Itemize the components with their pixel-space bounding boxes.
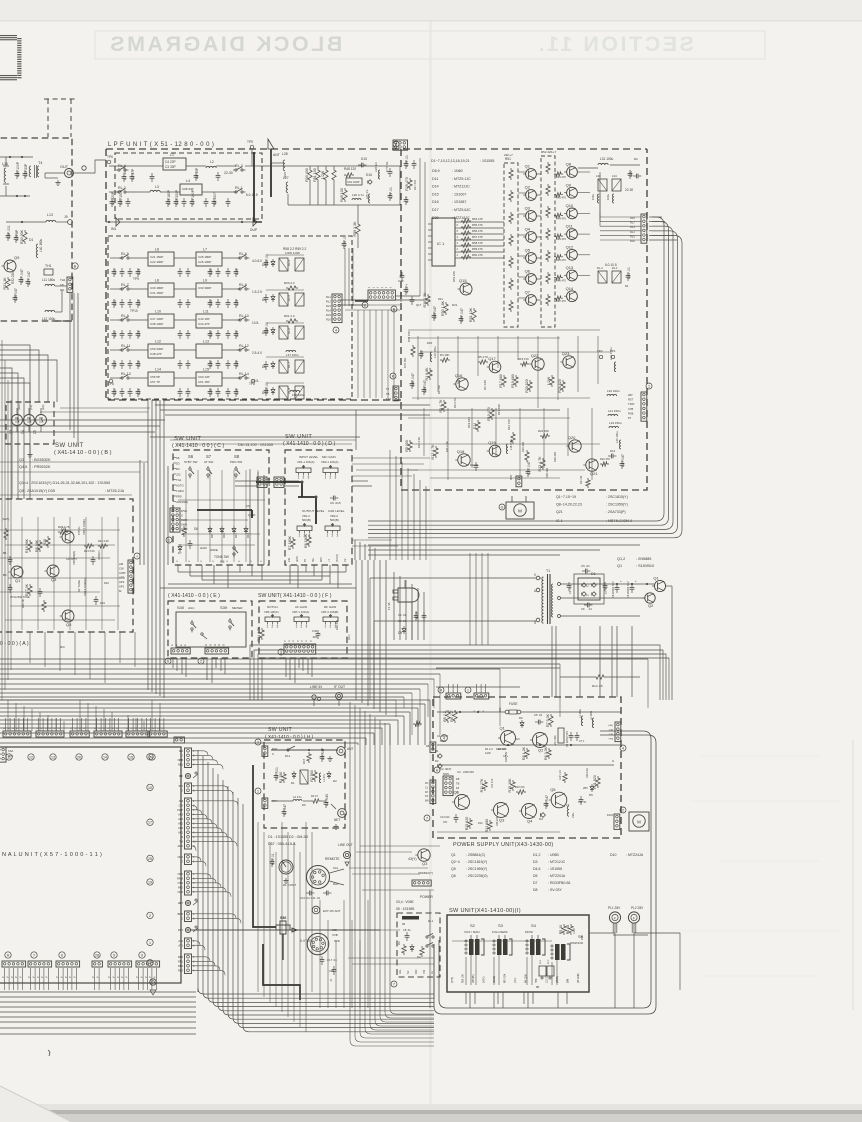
svg-text:L6: L6	[155, 248, 159, 252]
svg-text:Q18: Q18	[457, 449, 465, 454]
svg-text:CWP: CWP	[119, 571, 126, 575]
svg-text:C29: C29	[235, 361, 239, 367]
svg-text:R14 47K: R14 47K	[491, 778, 494, 788]
svg-text:R50 1.8K: R50 1.8K	[441, 300, 445, 316]
svg-text:1/2W: 1/2W	[485, 752, 491, 755]
svg-text:TM: TM	[179, 840, 183, 844]
svg-text:R76 15K: R76 15K	[403, 358, 407, 368]
svg-text:AP1: AP1	[178, 831, 183, 835]
svg-text:M: M	[637, 820, 641, 825]
svg-text:: 2SC2235(O): : 2SC2235(O)	[466, 874, 488, 878]
svg-text:R7 180K: R7 180K	[288, 535, 292, 550]
svg-text:Q22: Q22	[531, 353, 539, 358]
svg-text:RAT: RAT	[178, 928, 183, 932]
svg-text:RL6: RL6	[326, 318, 331, 322]
svg-text:C26 047: C26 047	[14, 288, 18, 301]
svg-text:Q5: Q5	[550, 787, 556, 792]
svg-text:Q3: Q3	[525, 206, 531, 211]
svg-text:D33: D33	[100, 601, 105, 605]
svg-text:L18 150u: L18 150u	[509, 439, 513, 450]
svg-text:C8 150?: C8 150?	[213, 192, 217, 205]
svg-text:7: 7	[393, 983, 395, 987]
svg-text:RL-5: RL-5	[121, 252, 129, 256]
svg-text:C47 047: C47 047	[621, 454, 625, 467]
svg-text:2200 50V: 2200 50V	[463, 770, 474, 774]
svg-text:C7?: C7?	[405, 197, 409, 203]
svg-text:PAL: PAL	[312, 557, 315, 562]
svg-text:M: M	[223, 644, 226, 646]
svg-text:D15: D15	[361, 157, 367, 161]
svg-text:L30 100u: L30 100u	[615, 431, 619, 443]
svg-text:THRU: THRU	[176, 489, 184, 493]
svg-text:16V: 16V	[443, 821, 448, 824]
svg-text:1: 1	[298, 476, 300, 480]
svg-text:NBB: NBB	[178, 758, 184, 762]
svg-text:L38: L38	[596, 174, 601, 178]
svg-text:L30 4.7u: L30 4.7u	[352, 193, 364, 197]
svg-text:D11 D18: D11 D18	[497, 404, 501, 415]
svg-text:(GN): (GN)	[608, 725, 613, 727]
svg-text:C33 330P: C33 330P	[175, 189, 179, 205]
svg-text:AT SW: AT SW	[204, 460, 213, 464]
svg-text:3: 3	[277, 625, 279, 629]
svg-text:1: 1	[467, 689, 469, 693]
svg-text:G: G	[181, 917, 183, 921]
svg-text:Q8~14,20,22,23: Q8~14,20,22,23	[556, 503, 582, 507]
svg-text:: MTZ20JA: : MTZ20JA	[548, 874, 566, 878]
svg-text:D10: D10	[478, 822, 483, 825]
svg-text:2: 2	[622, 809, 624, 813]
svg-text:C6: C6	[246, 504, 250, 508]
svg-text:C6: C6	[581, 607, 585, 611]
svg-text:S: S	[272, 752, 274, 756]
svg-text:Q2: Q2	[525, 185, 531, 190]
svg-text:DUP: DUP	[250, 228, 258, 232]
svg-text:RL-5: RL-5	[287, 294, 291, 301]
svg-text:C44 47P: C44 47P	[198, 322, 210, 326]
svg-text:Q8: Q8	[566, 162, 572, 167]
svg-text:(VTB): (VTB)	[452, 977, 454, 983]
svg-text:C72 +: C72 +	[405, 284, 409, 293]
svg-text:RL-14: RL-14	[239, 372, 249, 376]
svg-text:RL-9: RL-9	[121, 314, 129, 318]
svg-text:Q6: Q6	[525, 269, 531, 274]
svg-text:NTN: NTN	[178, 881, 183, 885]
svg-text:RL-4: RL-4	[287, 259, 291, 266]
svg-text:R2 560: R2 560	[310, 770, 314, 782]
svg-text:R47 470: R47 470	[556, 299, 566, 303]
svg-text:L32 100u: L32 100u	[607, 389, 620, 393]
svg-text:Q7: Q7	[525, 290, 531, 295]
svg-text:L P F U N I T ( X 51 - 12 8 0: L P F U N I T ( X 51 - 12 8 0 - 0 0 )	[108, 142, 214, 148]
svg-text:RL3: RL3	[630, 225, 635, 229]
svg-text:: U05B: : U05B	[548, 853, 559, 857]
svg-text:NO0: NO0	[178, 890, 184, 894]
svg-text:G: G	[612, 759, 614, 763]
svg-text:6: 6	[167, 660, 169, 664]
svg-text:Q11: Q11	[566, 224, 574, 229]
svg-text:: 2SA733(P): : 2SA733(P)	[606, 510, 626, 514]
svg-text:G: G	[181, 860, 183, 864]
svg-text:M: M	[181, 835, 183, 839]
svg-text:C13 100: C13 100	[440, 816, 450, 819]
svg-text:L2 47u: L2 47u	[293, 795, 302, 799]
svg-text:R28 22K: R28 22K	[545, 468, 549, 478]
svg-text:AGC: AGC	[188, 606, 195, 610]
svg-text:C23: C23	[137, 300, 141, 306]
svg-text:R27 82: R27 82	[579, 475, 583, 484]
svg-text:( X41-1410 - 0 0 ) ( E ): ( X41-1410 - 0 0 ) ( E )	[168, 593, 220, 599]
svg-text:43(Y): 43(Y)	[408, 857, 417, 861]
svg-text:R3 4.7K: R3 4.7K	[439, 399, 443, 413]
svg-text:C40: C40	[312, 629, 318, 633]
svg-text:VRT-2 10K(B): VRT-2 10K(B)	[321, 610, 338, 614]
svg-text:L1 47u: L1 47u	[322, 774, 326, 782]
svg-text:R57 47K: R57 47K	[472, 235, 483, 239]
svg-text:1: 1	[327, 534, 329, 538]
svg-text:RL-11: RL-11	[121, 344, 131, 348]
svg-text:+: +	[635, 579, 637, 583]
svg-text:Q2: Q2	[648, 603, 654, 608]
svg-text:RL1: RL1	[428, 919, 434, 923]
svg-text:RL-7: RL-7	[121, 283, 129, 287]
svg-text:: S15VB10: : S15VB10	[636, 564, 654, 568]
svg-text:D9 D8: D9 D8	[470, 463, 478, 467]
svg-text:RL1: RL1	[630, 230, 635, 234]
svg-text:: 1S1007: : 1S1007	[452, 192, 466, 196]
svg-text:10.5-: 10.5-	[252, 321, 259, 325]
svg-text:(28(B)): (28(B))	[557, 976, 559, 983]
svg-text:L12 150u: L12 150u	[42, 317, 56, 321]
svg-text:VR6 10K(F): VR6 10K(F)	[264, 610, 279, 614]
svg-text:C26: C26	[209, 269, 213, 275]
svg-text:F1 4A: F1 4A	[387, 602, 391, 610]
svg-text:MONI: MONI	[525, 930, 533, 934]
svg-text:C26: C26	[209, 389, 213, 395]
svg-text:NB1: NB1	[178, 763, 184, 767]
svg-text:TW8: TW8	[608, 739, 613, 741]
svg-text:R30 30K: R30 30K	[20, 229, 24, 244]
svg-text:S39: S39	[220, 605, 228, 610]
svg-text:AP3: AP3	[119, 576, 125, 580]
svg-text:AP1: AP1	[119, 585, 125, 589]
svg-text:D17: D17	[432, 208, 439, 212]
svg-text:C4 .043: C4 .043	[325, 794, 329, 806]
svg-text:SECTION 11.: SECTION 11.	[536, 32, 694, 56]
svg-text:L14: L14	[155, 368, 161, 372]
svg-text:C1 100P: C1 100P	[123, 166, 127, 180]
svg-text:R26 22K: R26 22K	[553, 452, 557, 462]
svg-text:4.0-6.0: 4.0-6.0	[252, 259, 262, 263]
svg-text:PRS: PRS	[176, 495, 182, 499]
svg-text:R41 470: R41 470	[556, 175, 566, 179]
svg-text:C23: C23	[137, 389, 141, 395]
svg-text:R14 .05: R14 .05	[592, 684, 603, 688]
svg-text:AF GAIN: AF GAIN	[295, 605, 307, 609]
svg-text:Q21: Q21	[556, 510, 563, 514]
svg-text:AUTO: AUTO	[176, 484, 185, 488]
svg-text:03,4 : V06E: 03,4 : V06E	[396, 900, 414, 904]
svg-text:Q10: Q10	[566, 203, 574, 208]
svg-text:AM: AM	[119, 562, 124, 566]
svg-text:ANT: ANT	[273, 153, 280, 157]
svg-text:R6 2.2: R6 2.2	[450, 711, 454, 722]
svg-text:C5 .01: C5 .01	[581, 564, 590, 568]
svg-text:CAR LEVEL: CAR LEVEL	[328, 509, 345, 513]
svg-text:1/2W: 1/2W	[573, 928, 576, 934]
svg-text:(LEX): (LEX)	[17, 403, 21, 410]
svg-text:3: 3	[337, 534, 339, 538]
svg-text:1.5-2.5: 1.5-2.5	[252, 290, 262, 294]
svg-text:Q1: Q1	[15, 578, 21, 583]
svg-text:VR1 500: VR1 500	[554, 735, 557, 745]
svg-text:MR: MR	[179, 749, 183, 753]
svg-text:RL1: RL1	[326, 295, 331, 299]
svg-text:R54 47K: R54 47K	[472, 217, 483, 221]
svg-text:RAL: RAL	[399, 969, 402, 974]
svg-text:C28 .001: C28 .001	[7, 225, 11, 239]
svg-text:: MTZ24JA: : MTZ24JA	[626, 853, 644, 857]
svg-text:7: 7	[426, 817, 428, 821]
svg-text:RL-1: RL-1	[235, 186, 243, 190]
svg-text:R20 3.3K: R20 3.3K	[586, 768, 589, 778]
svg-text:Q1: Q1	[451, 853, 456, 857]
svg-text:TB: TB	[456, 782, 460, 786]
svg-text:: 2N5885: : 2N5885	[636, 557, 651, 561]
svg-text:D7: D7	[533, 881, 538, 885]
svg-text:POWER: POWER	[420, 895, 433, 899]
svg-text:R15 10K: R15 10K	[508, 778, 512, 793]
svg-text:RL5: RL5	[630, 216, 635, 220]
svg-text:R6 3.3K: R6 3.3K	[544, 746, 548, 760]
svg-text:C84 047: C84 047	[423, 380, 427, 393]
svg-text:C56 5P: C56 5P	[150, 375, 160, 379]
svg-text:Q3: Q3	[499, 818, 505, 823]
svg-text:C37 .047: C37 .047	[20, 269, 24, 283]
svg-text:C20: C20	[113, 331, 117, 337]
svg-text:C5 .01: C5 .01	[534, 713, 543, 717]
svg-text:R45 470: R45 470	[556, 258, 566, 262]
svg-text:L2: L2	[210, 160, 214, 164]
svg-text:19: 19	[148, 881, 152, 885]
svg-text:VOX / MAN: VOX / MAN	[464, 930, 480, 934]
svg-text:: 2SB861(C): : 2SB861(C)	[466, 853, 485, 857]
svg-text:R24 22K: R24 22K	[538, 429, 549, 433]
svg-text:M: M	[218, 644, 221, 646]
svg-text:R9 4.7K: R9 4.7K	[453, 398, 457, 408]
svg-text:RL-3: RL-3	[235, 164, 243, 168]
svg-text:D1,2: D1,2	[533, 853, 540, 857]
svg-text:R8 180K: R8 180K	[304, 533, 308, 548]
svg-text:C6 .047: C6 .047	[545, 795, 549, 807]
svg-text:RB0: RB0	[178, 955, 184, 959]
svg-text:2: 2	[200, 660, 202, 664]
svg-text:C82 .01: C82 .01	[265, 382, 269, 394]
svg-text:MIU: MIU	[60, 645, 65, 649]
svg-text:D4,6: D4,6	[533, 867, 540, 871]
svg-text:L38 1m: L38 1m	[374, 161, 378, 172]
svg-text:C82 .01: C82 .01	[265, 254, 269, 266]
svg-text:R49 100: R49 100	[340, 188, 344, 202]
svg-text:R51 10K: R51 10K	[469, 307, 473, 322]
svg-text:C29: C29	[235, 300, 239, 306]
svg-text:C8 15P: C8 15P	[195, 167, 199, 179]
svg-text:R27 47K: R27 47K	[413, 180, 417, 190]
svg-text:C20: C20	[113, 361, 117, 367]
svg-text:RB2: RB2	[178, 964, 184, 968]
svg-text:Q20: Q20	[568, 435, 576, 440]
svg-text:L1: L1	[170, 153, 174, 157]
svg-text:28V: 28V	[583, 786, 588, 790]
svg-text:APO: APO	[178, 844, 183, 848]
svg-text:C10 .01 C11 .01: C10 .01 C11 .01	[300, 896, 321, 900]
svg-text:(TXGT): (TXGT)	[336, 554, 339, 562]
svg-text:RL7: RL7	[630, 221, 635, 225]
svg-text:150u: 150u	[572, 812, 575, 818]
svg-text:RNM: RNM	[177, 877, 183, 881]
svg-text:(B SLOPE TUNE: (B SLOPE TUNE	[10, 595, 30, 599]
svg-text:Q100: Q100	[248, 513, 256, 517]
svg-text:C38 100P: C38 100P	[150, 322, 163, 326]
svg-text:NC: NC	[407, 970, 410, 974]
svg-text:: 2SC1815(Y): : 2SC1815(Y)	[606, 495, 628, 499]
svg-text:Q: Q	[330, 978, 332, 982]
svg-text:TBK: TBK	[536, 978, 538, 983]
svg-text:M: M	[205, 644, 208, 646]
svg-text:AT1: AT1	[178, 944, 183, 948]
svg-text:C76 .01: C76 .01	[343, 235, 347, 247]
svg-text:C2 47P: C2 47P	[131, 168, 135, 180]
svg-text:VR1-1 10K(A): VR1-1 10K(A)	[297, 460, 314, 464]
svg-text:C60 12P: C60 12P	[198, 375, 210, 379]
svg-text:L34: L34	[612, 174, 617, 178]
svg-text:FS: FS	[425, 795, 428, 798]
svg-text:2: 2	[330, 476, 332, 480]
svg-text:SSA: SSA	[8, 749, 13, 753]
svg-text:RC: RC	[425, 782, 429, 785]
svg-text:C20: C20	[113, 269, 117, 275]
svg-text:M: M	[214, 644, 217, 646]
svg-text:G: G	[501, 506, 504, 510]
svg-text:: 1S1587: : 1S1587	[452, 200, 466, 204]
svg-text:WVI: WVI	[320, 557, 323, 562]
svg-text:D19 D10: D19 D10	[467, 417, 471, 428]
svg-text:C4 22P: C4 22P	[165, 160, 176, 164]
svg-text:Q9: Q9	[566, 182, 572, 187]
svg-text:( X41-1410 - 0 0 ) ( H ): ( X41-1410 - 0 0 ) ( H )	[265, 734, 314, 740]
svg-text:Q1: Q1	[500, 726, 506, 731]
svg-text:C9 220P: C9 220P	[111, 191, 115, 205]
svg-text:: MTZ5.6JC: : MTZ5.6JC	[452, 208, 471, 212]
svg-text:R24 680: R24 680	[485, 819, 489, 833]
svg-text:D16: D16	[432, 200, 439, 204]
svg-text:Q17: Q17	[488, 356, 496, 361]
svg-text:14: 14	[103, 756, 107, 760]
svg-text:C3: C3	[457, 770, 461, 774]
svg-text:R25 620: R25 620	[465, 817, 469, 831]
svg-text:C14 180P: C14 180P	[167, 189, 171, 205]
svg-text:R60 47K: R60 47K	[472, 253, 483, 257]
svg-text:Q23: Q23	[562, 351, 570, 356]
svg-text:C50 330P: C50 330P	[150, 347, 163, 351]
svg-text:MT1: MT1	[8, 754, 14, 758]
svg-text:C27 .047: C27 .047	[27, 271, 31, 285]
svg-text:IC 1: IC 1	[437, 241, 445, 246]
svg-text:PRO SW: PRO SW	[230, 460, 242, 464]
svg-text:R25 22K: R25 22K	[521, 442, 525, 452]
svg-text:NO2: NO2	[178, 855, 184, 859]
svg-text:D12: D12	[246, 532, 250, 538]
svg-text:LINE OUT: LINE OUT	[338, 843, 353, 847]
svg-text:D2: D2	[333, 779, 337, 783]
svg-text:SW UNIT( X41-1410 - 0 0 ) ( F: SW UNIT( X41-1410 - 0 0 ) ( F )	[258, 593, 332, 599]
svg-text:C26: C26	[209, 361, 213, 367]
svg-text:R44 470: R44 470	[556, 237, 566, 241]
svg-text:D3: D3	[176, 467, 180, 471]
svg-text:S4: S4	[531, 923, 537, 928]
svg-text:R17 680: R17 680	[499, 374, 503, 388]
svg-text:R17 3K: R17 3K	[25, 583, 29, 596]
svg-text:RL3: RL3	[326, 304, 331, 308]
svg-text:L37 100u: L37 100u	[286, 353, 299, 357]
svg-text:H: H	[436, 769, 439, 773]
svg-text:FAN: FAN	[607, 813, 613, 817]
svg-text:L10: L10	[155, 310, 161, 314]
svg-text:TG1: TG1	[176, 478, 182, 482]
svg-text:RF2: RF2	[178, 886, 183, 890]
svg-text:L11: L11	[203, 310, 209, 314]
svg-text:L3: L3	[155, 185, 159, 189]
svg-text:D14: D14	[610, 449, 616, 453]
svg-text:R10 1K: R10 1K	[21, 599, 25, 608]
svg-text:L11 180u: L11 180u	[42, 278, 55, 282]
svg-text:D8: D8	[533, 888, 538, 892]
svg-text:: 2SC1815(Y): : 2SC1815(Y)	[466, 860, 487, 864]
svg-text:R26 47K: R26 47K	[335, 620, 339, 630]
svg-text:24B: 24B	[581, 935, 584, 940]
svg-text:1: 1	[325, 625, 327, 629]
svg-text:L16: L16	[2, 162, 8, 166]
svg-text:D1: D1	[29, 238, 33, 242]
svg-text:XVR: XVR	[334, 939, 340, 943]
svg-text:C26: C26	[209, 331, 213, 337]
svg-text:L9: L9	[203, 279, 207, 283]
svg-text:RF GAIN: RF GAIN	[324, 605, 336, 609]
svg-text:1: 1	[325, 476, 327, 480]
svg-text:SW UNIT: SW UNIT	[55, 443, 84, 449]
svg-text:BY: BY	[304, 558, 307, 562]
svg-text:Q1=4 : 2SC1815(Y) D14-26,31: Q1=4 : 2SC1815(Y) D14-26,31,32,66,101,10…	[19, 481, 110, 485]
svg-text:12: 12	[29, 756, 33, 760]
svg-text:WVD: WVD	[181, 509, 187, 513]
svg-text:AT2: AT2	[178, 939, 183, 943]
svg-text:(EXT): (EXT)	[296, 556, 299, 562]
svg-text:Q5 : 2SA1015(Y) D35: Q5 : 2SA1015(Y) D35	[19, 489, 55, 493]
svg-text:AP2: AP2	[178, 822, 183, 826]
svg-text:Q2~4: Q2~4	[451, 860, 460, 864]
svg-text:D6: D6	[302, 803, 306, 807]
svg-text:500V: 500V	[443, 772, 449, 776]
svg-text:XMI: XMI	[332, 928, 337, 932]
svg-text:C91 100P: C91 100P	[347, 180, 360, 184]
svg-text:2: 2	[301, 625, 303, 629]
svg-text:FB: FB	[456, 777, 460, 781]
svg-text:: BG5532K: : BG5532K	[32, 458, 51, 462]
svg-text:1: 1	[149, 941, 151, 945]
svg-text:1: 1	[267, 625, 269, 629]
svg-text:D8,9: D8,9	[432, 169, 440, 173]
svg-text:R8 1.2K: R8 1.2K	[522, 746, 526, 760]
